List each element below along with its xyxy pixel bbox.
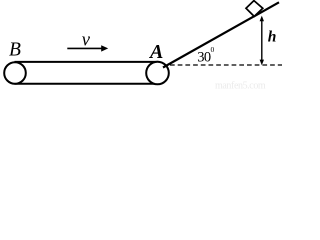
incline line [163,2,279,67]
velocity arrow shaft [67,47,102,49]
belt top line [15,61,159,63]
h arrow shaft [261,18,263,63]
svg-text:A: A [148,41,163,63]
h arrow lower head [260,60,264,66]
roller pulley B (left) [4,62,26,84]
svg-text:v: v [82,31,91,51]
roller pulley A (right) [146,62,169,85]
block on incline [246,1,263,17]
belt bottom line [15,83,159,85]
h arrow upper head [260,16,264,22]
svg-text:manfen5.com: manfen5.com [215,81,266,92]
dashed horizontal reference line [170,64,282,66]
svg-text:B: B [9,40,21,61]
svg-text:h: h [268,28,277,45]
velocity arrowhead [101,45,108,51]
